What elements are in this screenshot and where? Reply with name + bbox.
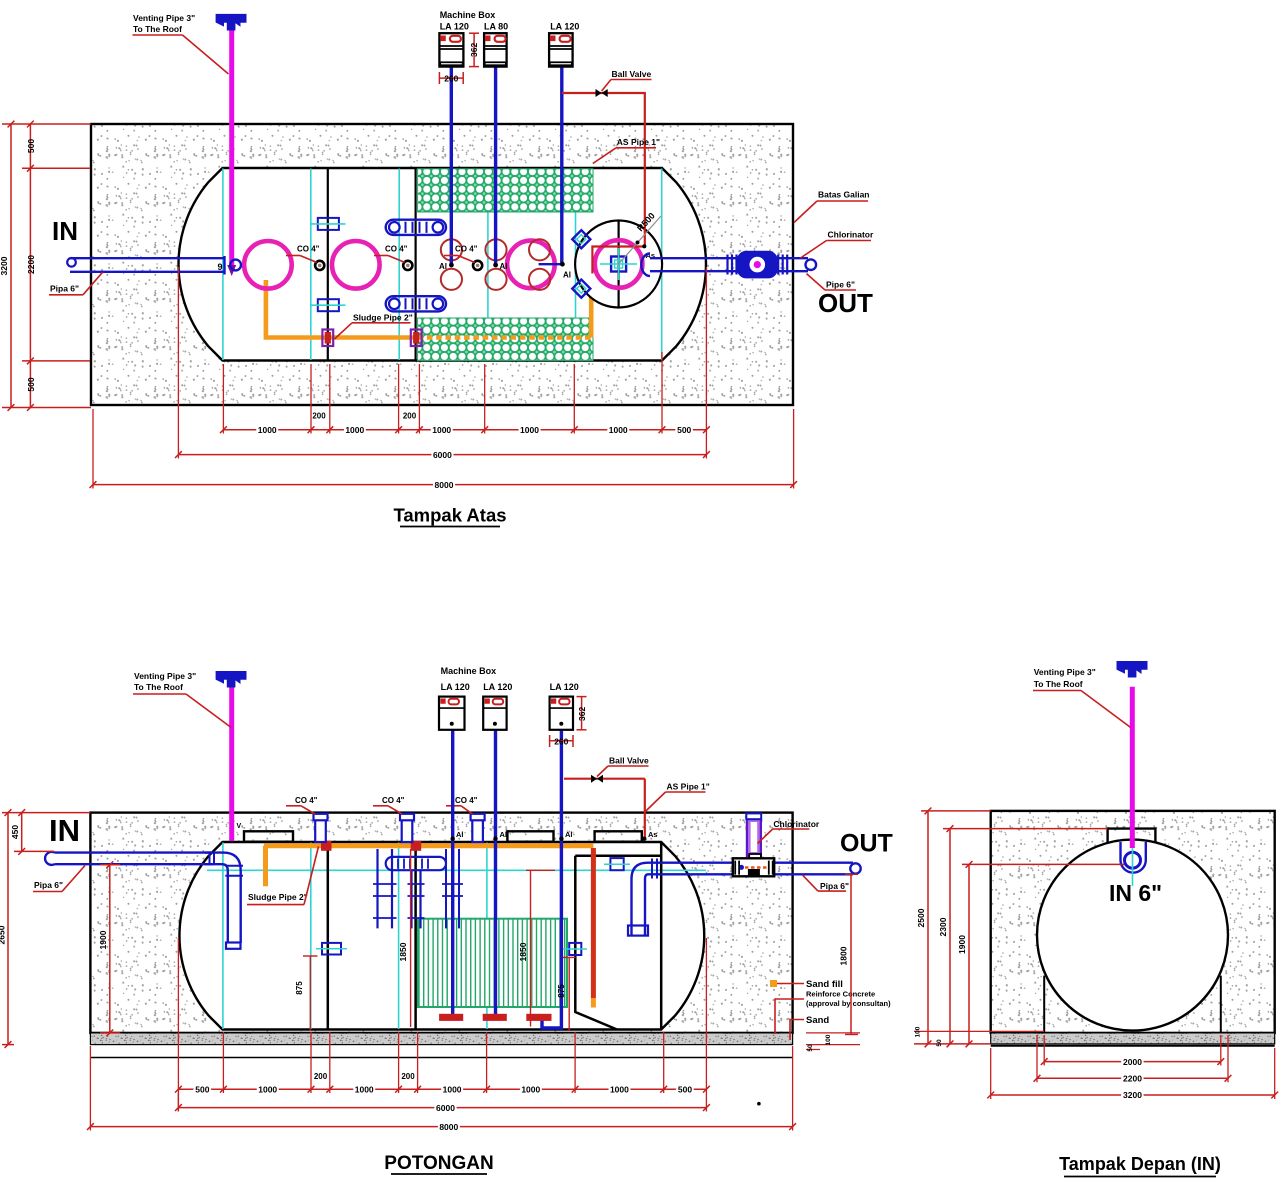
svg-text:1000: 1000	[258, 425, 277, 435]
guide line cyan	[310, 169, 312, 361]
diffuser bars	[440, 1014, 463, 1020]
LA pipes section	[451, 730, 454, 1020]
svg-text:2000: 2000	[1123, 1057, 1142, 1067]
svg-text:260: 260	[554, 736, 568, 746]
outlet pipe	[650, 257, 808, 259]
svg-text:500: 500	[26, 139, 36, 153]
machine box LA120	[439, 33, 463, 66]
svg-text:CO 4": CO 4"	[455, 245, 478, 254]
svg-text:200: 200	[401, 1072, 415, 1081]
diffuser circles	[441, 239, 462, 260]
guide line cyan	[487, 169, 489, 361]
svg-text:2200: 2200	[1123, 1074, 1142, 1084]
svg-text:875: 875	[557, 984, 566, 998]
guide line cyan	[575, 169, 577, 361]
svg-text:1000: 1000	[355, 1084, 374, 1094]
svg-text:Batas Galian: Batas Galian	[818, 190, 870, 200]
svg-text:8000: 8000	[435, 480, 454, 490]
machine box LA120 b	[549, 33, 573, 66]
svg-text:Pipa 6": Pipa 6"	[50, 284, 79, 294]
svg-text:Al: Al	[500, 830, 508, 839]
svg-text:CO 4": CO 4"	[382, 796, 405, 805]
svg-text:260: 260	[444, 74, 458, 84]
svg-text:To The Roof: To The Roof	[1034, 679, 1083, 689]
manhole (magenta circle)	[595, 240, 643, 288]
svg-text:AS Pipe 1": AS Pipe 1"	[617, 137, 660, 147]
svg-text:362: 362	[469, 43, 479, 57]
svg-text:6000: 6000	[433, 450, 452, 460]
svg-text:3200: 3200	[1123, 1090, 1142, 1100]
svg-text:1000: 1000	[345, 425, 364, 435]
inlet fitting front	[1121, 842, 1146, 873]
svg-text:8000: 8000	[439, 1122, 458, 1132]
svg-text:500: 500	[195, 1084, 209, 1094]
inlet pipe	[70, 257, 225, 259]
orange sludge pipe riser	[589, 274, 594, 338]
svg-text:LA 120: LA 120	[441, 682, 470, 692]
svg-text:100: 100	[915, 1026, 922, 1037]
svg-text:Al: Al	[439, 262, 447, 271]
svg-text:2200: 2200	[26, 255, 36, 274]
svg-text:Sludge Pipe 2": Sludge Pipe 2"	[353, 313, 413, 323]
CO 4in cleanout	[473, 261, 482, 270]
svg-text:3200: 3200	[0, 256, 9, 275]
partition walls section	[327, 845, 330, 1030]
machine box LA80	[484, 33, 507, 66]
left dims section	[7, 813, 9, 1045]
orange sludge pipe run	[266, 280, 418, 338]
inlet pipe section	[55, 851, 214, 853]
AS drop pipe red/orange	[591, 848, 596, 998]
tank circle front	[1037, 840, 1228, 1031]
support legs	[1043, 976, 1045, 1033]
svg-text:Ball Valve: Ball Valve	[609, 756, 649, 766]
svg-text:1800: 1800	[839, 946, 849, 965]
blue LA pipe drops (top view)	[450, 67, 453, 265]
chlorinator valve	[738, 252, 777, 278]
bottom dimension rows	[222, 364, 224, 434]
svg-text:IN: IN	[52, 216, 78, 246]
svg-text:2500: 2500	[916, 908, 926, 927]
svg-text:362: 362	[577, 707, 587, 721]
venting pipe (magenta)	[229, 30, 234, 266]
svg-text:Al: Al	[456, 830, 464, 839]
Al markers	[449, 263, 454, 268]
svg-text:2300: 2300	[938, 917, 948, 936]
dim 362	[473, 33, 475, 66]
svg-text:To The Roof: To The Roof	[133, 24, 182, 34]
concrete body section	[90, 813, 792, 1033]
venting pipe section	[229, 687, 234, 841]
sludge valves	[322, 330, 333, 347]
manhole (magenta circle)	[507, 241, 555, 289]
svg-text:LA 120: LA 120	[550, 22, 579, 32]
svg-text:Ball Valve: Ball Valve	[612, 69, 652, 79]
svg-text:1000: 1000	[258, 1084, 277, 1094]
CO 4in cleanout	[403, 261, 412, 270]
guide line cyan	[661, 169, 663, 361]
dim 260	[439, 77, 463, 79]
outlet drop	[632, 863, 649, 936]
svg-text:Al: Al	[563, 271, 571, 280]
svg-text:POTONGAN: POTONGAN	[384, 1153, 493, 1174]
AS pipe red routing	[562, 93, 645, 274]
guide line cyan	[222, 169, 224, 361]
internal dims section	[410, 849, 412, 1027]
Al As markers section	[451, 837, 455, 841]
tank section outline	[179, 842, 704, 1030]
svg-text:1000: 1000	[521, 1084, 540, 1094]
partition wall 1	[327, 168, 329, 361]
sleeve on LA pipe1	[445, 849, 447, 928]
svg-text:CO 4": CO 4"	[297, 245, 320, 254]
diffuser circles	[529, 239, 550, 260]
inlet elbow and drop	[205, 853, 241, 943]
R500 leader	[619, 216, 661, 264]
vent cap	[216, 14, 246, 29]
clarifier wall	[575, 856, 617, 1030]
svg-text:OUT: OUT	[840, 830, 893, 858]
machine boxes section	[439, 697, 465, 730]
svg-text:CO 4": CO 4"	[295, 796, 318, 805]
fitting squares cyan	[322, 943, 341, 955]
sand layer front	[991, 1033, 1275, 1044]
diffuser circles	[485, 239, 506, 260]
partition sleeve symbol	[318, 218, 339, 230]
front left dims	[927, 811, 929, 1044]
svg-text:200: 200	[403, 411, 417, 420]
svg-text:Tampak Depan (IN): Tampak Depan (IN)	[1059, 1154, 1221, 1174]
svg-text:50: 50	[936, 1039, 943, 1047]
svg-text:Pipa 6": Pipa 6"	[820, 881, 849, 891]
clarifier chamber circle	[575, 221, 662, 308]
pipe coupling symbol	[386, 220, 446, 235]
svg-text:6000: 6000	[436, 1103, 455, 1113]
svg-text:1850: 1850	[398, 942, 408, 961]
CO stubs section	[315, 819, 326, 843]
svg-text:V: V	[237, 823, 242, 830]
svg-text:Sand: Sand	[806, 1015, 829, 1026]
svg-text:LA 120: LA 120	[550, 682, 579, 692]
aeration media (green) top band	[418, 169, 593, 212]
svg-text:OUT: OUT	[818, 288, 873, 318]
bottom dims section	[222, 1032, 224, 1093]
manhole (magenta circle)	[244, 241, 292, 289]
concrete excavation boundary	[91, 124, 793, 405]
svg-text:IN 6": IN 6"	[1109, 880, 1162, 906]
red collars on sludge pipe	[322, 841, 332, 850]
svg-text:To The Roof: To The Roof	[134, 682, 183, 692]
svg-text:Venting Pipe 3": Venting Pipe 3"	[134, 671, 196, 681]
svg-text:Pipa 6": Pipa 6"	[34, 880, 63, 890]
tank body top view	[179, 168, 706, 361]
excavation bottom line	[90, 1057, 792, 1059]
svg-text:Sludge Pipe 2": Sludge Pipe 2"	[248, 892, 308, 902]
svg-text:CO 4": CO 4"	[385, 245, 408, 254]
svg-text:IN: IN	[49, 813, 80, 848]
svg-text:Al: Al	[565, 830, 573, 839]
svg-text:Sand fill: Sand fill	[806, 979, 843, 990]
center fitting in clarifier	[611, 257, 626, 272]
green filter media	[418, 919, 567, 1007]
svg-text:AS Pipe 1": AS Pipe 1"	[667, 782, 710, 792]
svg-text:1000: 1000	[610, 1084, 629, 1094]
outlet pipe section	[648, 862, 853, 864]
pipe coupling symbol	[386, 296, 446, 311]
svg-text:50: 50	[807, 1044, 814, 1052]
svg-text:Al: Al	[500, 262, 508, 271]
svg-text:1000: 1000	[443, 1084, 462, 1094]
svg-text:1000: 1000	[520, 425, 539, 435]
orange sludge pipe section	[264, 843, 593, 848]
concrete front	[991, 811, 1275, 1033]
left dimension lines	[10, 124, 12, 408]
svg-text:Tampak Atas: Tampak Atas	[393, 505, 506, 526]
svg-text:200: 200	[314, 1072, 328, 1081]
svg-text:100: 100	[825, 1034, 832, 1045]
ball valve symbol	[596, 89, 608, 97]
svg-text:500: 500	[677, 425, 691, 435]
svg-text:1900: 1900	[957, 935, 967, 954]
sand foundation layer	[90, 1033, 792, 1045]
manhole covers section	[244, 831, 293, 841]
aeration media (green) bottom band	[418, 318, 593, 361]
partition2 baffle pipes	[386, 857, 446, 870]
svg-text:Venting Pipe 3": Venting Pipe 3"	[1034, 667, 1096, 677]
svg-text:2650: 2650	[0, 925, 7, 944]
guide line cyan	[398, 169, 400, 361]
svg-text:LA 120: LA 120	[440, 22, 469, 32]
svg-text:Venting Pipe 3": Venting Pipe 3"	[133, 13, 195, 23]
vent pipe front	[1130, 687, 1135, 848]
svg-text:Chlorinator: Chlorinator	[828, 230, 874, 240]
water level line	[207, 869, 706, 871]
diamond fitting	[572, 230, 590, 248]
chlorinator section	[747, 819, 761, 857]
svg-text:9: 9	[218, 262, 223, 272]
svg-text:1000: 1000	[609, 425, 628, 435]
CO 4in cleanout	[315, 261, 324, 270]
svg-text:500: 500	[678, 1084, 692, 1094]
svg-text:200: 200	[312, 411, 326, 420]
svg-text:Machine Box: Machine Box	[440, 10, 496, 20]
top collar front	[1108, 829, 1156, 842]
svg-text:LA 120: LA 120	[483, 682, 512, 692]
diamond fitting	[572, 280, 590, 298]
svg-text:Reinforce Concrete: Reinforce Concrete	[806, 990, 875, 999]
ball valve section	[564, 778, 645, 780]
svg-text:1900: 1900	[98, 930, 108, 949]
partition wall 2	[415, 168, 417, 361]
manhole (magenta circle)	[332, 241, 380, 289]
svg-text:875: 875	[295, 981, 304, 995]
svg-text:450: 450	[10, 825, 20, 839]
svg-text:(approval by consultan): (approval by consultan)	[806, 999, 891, 1008]
svg-text:1850: 1850	[518, 942, 528, 961]
svg-text:LA 80: LA 80	[484, 22, 508, 32]
cyan guides section	[222, 843, 224, 1030]
svg-text:Machine Box: Machine Box	[441, 666, 497, 676]
svg-text:1000: 1000	[432, 425, 451, 435]
svg-text:Chlorinator: Chlorinator	[773, 819, 819, 829]
partition sleeve symbol	[318, 299, 339, 311]
front bottom dims	[1043, 1035, 1045, 1066]
svg-text:CO 4": CO 4"	[455, 796, 478, 805]
svg-text:500: 500	[26, 377, 36, 391]
svg-text:As: As	[648, 830, 658, 839]
